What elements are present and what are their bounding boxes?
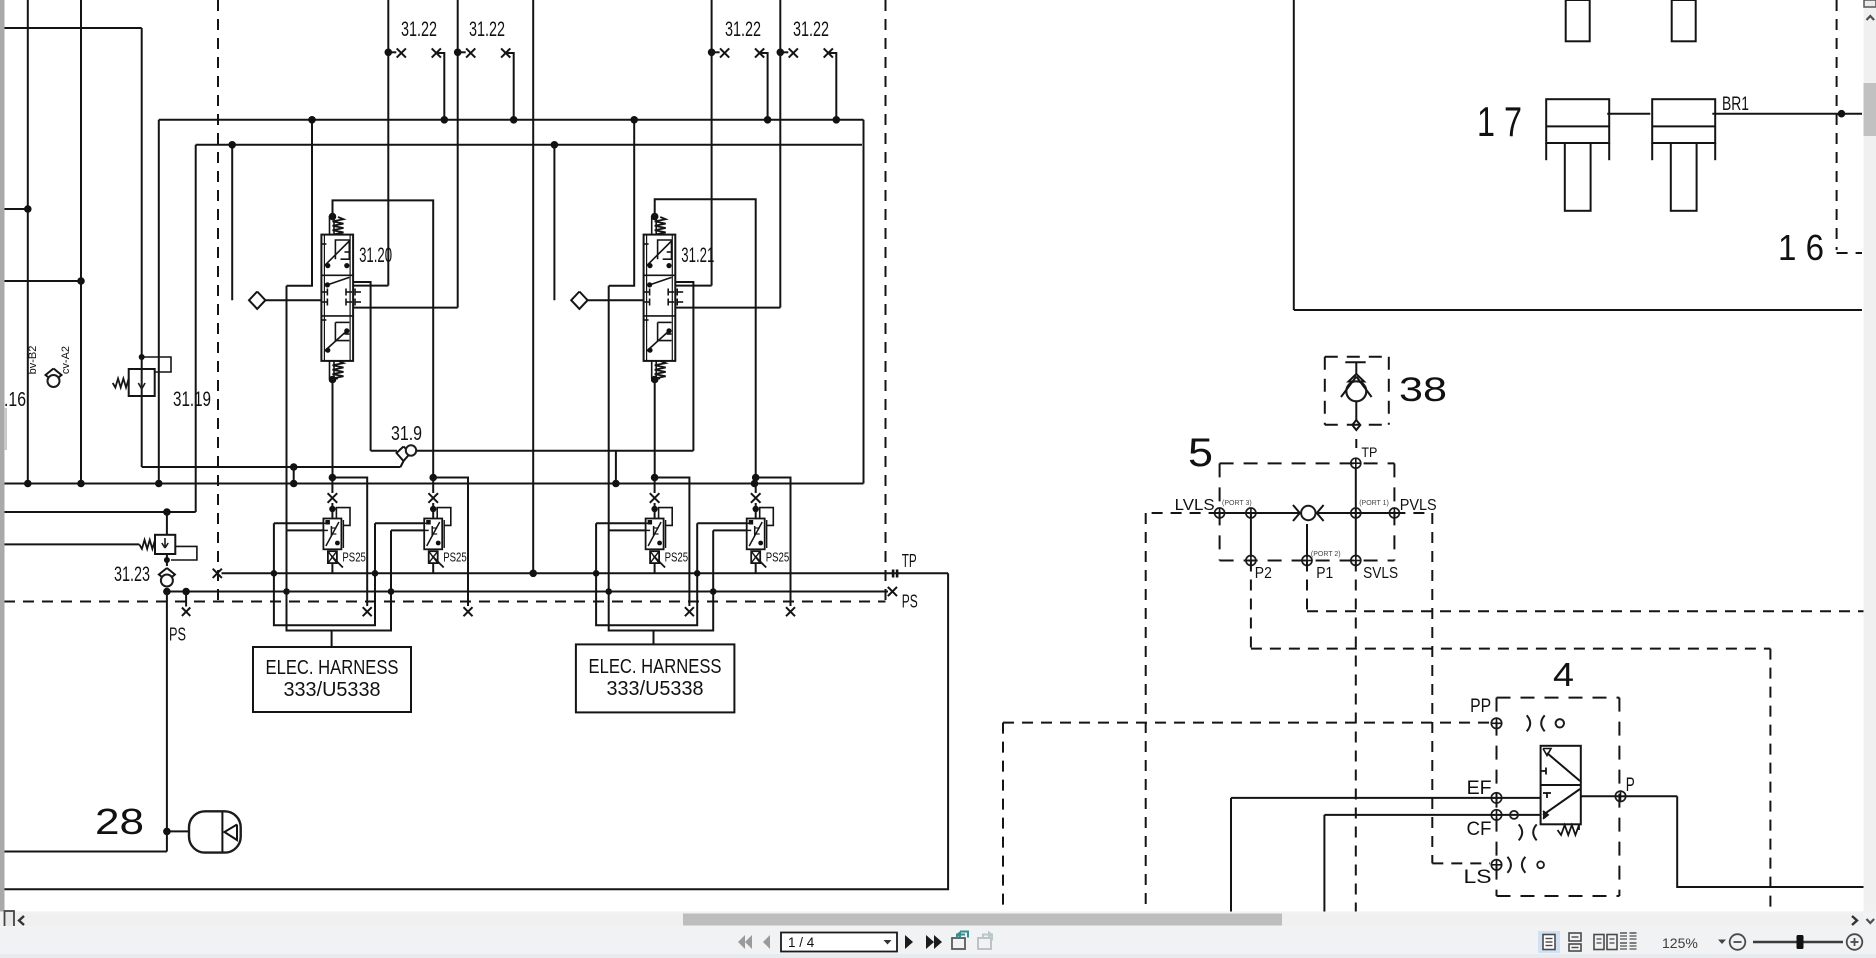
svg-text:1 6: 1 6 — [1778, 227, 1824, 268]
svg-text:1 / 4: 1 / 4 — [788, 935, 815, 950]
svg-text:PS: PS — [902, 592, 918, 612]
svg-text:PS25: PS25 — [443, 550, 467, 565]
svg-text:38: 38 — [1399, 371, 1447, 409]
svg-text:31.20: 31.20 — [359, 244, 392, 267]
svg-text:EF: EF — [1467, 778, 1492, 799]
svg-text:333/U5338: 333/U5338 — [284, 679, 381, 701]
svg-text:PVLS: PVLS — [1400, 497, 1437, 514]
svg-text:PS25: PS25 — [342, 550, 366, 565]
svg-text:5: 5 — [1188, 431, 1213, 475]
svg-text:(PORT 2): (PORT 2) — [1311, 551, 1341, 558]
svg-text:cv-A2: cv-A2 — [60, 346, 72, 374]
svg-text:1 7: 1 7 — [1477, 98, 1522, 145]
svg-text:bv-B2: bv-B2 — [27, 346, 39, 375]
svg-text:28: 28 — [95, 801, 144, 842]
svg-text:31.22: 31.22 — [725, 18, 761, 41]
svg-text:31.23: 31.23 — [114, 563, 150, 586]
svg-text:4: 4 — [1553, 656, 1574, 693]
svg-text:ELEC. HARNESS: ELEC. HARNESS — [589, 656, 722, 678]
svg-text:TP: TP — [902, 551, 917, 571]
svg-text:(PORT 1): (PORT 1) — [1359, 500, 1389, 507]
svg-text:PS25: PS25 — [766, 550, 790, 565]
svg-text:.16: .16 — [4, 389, 26, 411]
svg-text:SVLS: SVLS — [1363, 565, 1398, 582]
svg-text:PP: PP — [1470, 696, 1491, 717]
svg-text:P2: P2 — [1255, 565, 1272, 582]
svg-text:(PORT 3): (PORT 3) — [1222, 500, 1252, 507]
svg-text:31.22: 31.22 — [401, 18, 437, 41]
svg-text:PS25: PS25 — [665, 550, 689, 565]
svg-text:31.9: 31.9 — [391, 423, 422, 445]
svg-text:P: P — [1626, 775, 1635, 796]
svg-text:125%: 125% — [1662, 935, 1698, 951]
svg-text:31.22: 31.22 — [793, 18, 829, 41]
svg-text:LS: LS — [1464, 867, 1492, 888]
svg-text:PS: PS — [169, 625, 186, 645]
svg-text:333/U5338: 333/U5338 — [607, 678, 704, 700]
svg-text:BR1: BR1 — [1722, 94, 1749, 115]
svg-text:ELEC. HARNESS: ELEC. HARNESS — [266, 657, 399, 679]
svg-text:LVLS: LVLS — [1175, 497, 1215, 514]
svg-text:31.22: 31.22 — [469, 18, 505, 41]
svg-text:31.19: 31.19 — [173, 388, 211, 411]
svg-text:P1: P1 — [1316, 565, 1333, 582]
svg-text:TP: TP — [1361, 444, 1377, 460]
svg-text:CF: CF — [1467, 819, 1492, 840]
svg-text:31.21: 31.21 — [681, 244, 714, 267]
